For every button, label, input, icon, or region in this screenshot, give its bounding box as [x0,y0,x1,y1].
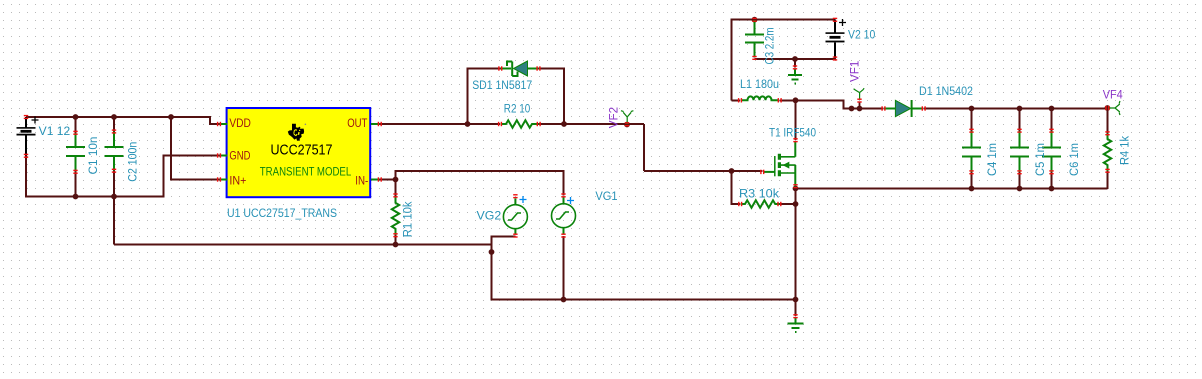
svg-text:R3 10k: R3 10k [739,189,779,201]
node C6 top [1049,106,1055,112]
pin U1 GND [217,153,221,157]
pin C6 bottom [1049,170,1053,174]
node C2 bottom [111,194,117,200]
wire SD1 left vertical [468,69,501,126]
battery V1 [17,117,39,156]
pin V2 top [833,18,837,22]
wire R1 top stub [395,180,397,197]
capacitor C3 [745,20,764,58]
node VG1 bottom [561,297,567,303]
node R2 left [465,121,471,127]
wire lower horizontal net y=244 [114,244,492,246]
pin R4 bottom [1105,169,1109,173]
wire C3 loop bottom [755,58,836,60]
svg-text:OUT: OUT [347,118,367,130]
wire drain node to D1 step [796,101,884,109]
wire C5 top stub [1019,109,1021,132]
pin D1 cathode [922,106,926,110]
node C1 bottom [73,194,79,200]
svg-text:VG1: VG1 [595,191,617,203]
svg-text:R2 10: R2 10 [504,104,530,116]
pin U1 IN+ [217,177,221,181]
wire L1 left stub [732,100,741,102]
generator VG1 [552,197,576,234]
pin C5 top [1017,129,1021,133]
wire bottom ground rail [492,299,797,301]
diode SD1 1N5817 (pointing left, schottky) [501,61,539,76]
test point VF1 [859,102,861,109]
pin VG2 minus [513,234,517,238]
pin U1 VDD [217,122,221,126]
pin R2 right [537,122,541,126]
wire R2 right stub [539,123,564,125]
wire R1 bottom stub [395,235,397,246]
svg-text:VDD: VDD [229,118,251,130]
svg-text:C3 2.2m: C3 2.2m [765,28,777,65]
svg-text:C4 1m: C4 1m [987,143,999,176]
svg-text:SD1 1N5817: SD1 1N5817 [472,80,532,92]
wire C2 bottom stub [113,171,115,198]
svg-text:VF4: VF4 [1103,90,1124,102]
pin C6 top [1049,129,1053,133]
pin VG2 plus [513,194,517,198]
svg-text:R1 10k: R1 10k [403,201,415,237]
svg-text:D1 1N5402: D1 1N5402 [919,86,973,98]
op-amp U1 UCC27517 macro box [220,108,380,197]
pin SD1 anode [498,66,502,70]
capacitor C6 [1042,131,1061,172]
capacitor C1 [66,133,85,172]
wire VF2 drop [643,124,645,171]
pin ground bottom [793,314,797,318]
wire R2 node to VF2 corner [564,123,644,125]
svg-text:R4 1k: R4 1k [1120,136,1132,165]
wire IN- pin to R1 node [380,179,396,181]
wire ground stub top [794,59,796,68]
wire gate horizontal [644,170,763,172]
wire VG1 bottom drop [563,236,565,300]
PIN END MARKS [24,18,1110,319]
pin VG1 minus [561,234,565,238]
TI logo [288,124,306,141]
wire GND pin drop [164,156,220,198]
node C3/V2 ground [792,56,798,62]
pin T1 source [793,184,797,188]
pin C5 bottom [1017,170,1021,174]
pin V1 top [24,115,28,119]
svg-text:TRANSIENT MODEL: TRANSIENT MODEL [260,165,352,179]
resistor R1 (vertical) [392,196,399,235]
pin ground top [793,65,797,69]
node mid vertical x=491 [489,249,495,255]
pin C3 bottom [752,56,756,60]
test point VF2 [621,111,633,124]
pin R1 bottom [393,233,397,237]
diode D1 1N5402 (pointing right) [884,100,923,117]
node R3 right [793,201,799,207]
resistor R3 (horizontal) [741,200,780,207]
node C3 top [752,17,758,23]
wire C5 bottom stub [1019,172,1021,189]
wire R4 bottom stub [1107,171,1109,189]
svg-text:UCC27517: UCC27517 [271,142,333,159]
pin R3 right [777,202,781,206]
pin D1 anode [881,106,885,110]
node C5 top [1017,106,1023,112]
resistor R2 [501,120,539,127]
pin V2 bottom [833,56,837,60]
wire T1 drain stub [795,101,797,141]
svg-text:VF2: VF2 [609,107,621,128]
resistor R4 (vertical) [1104,134,1111,172]
pin C2 top [112,129,116,133]
svg-text:GND: GND [229,151,250,163]
wire ground stub bottom [795,300,797,317]
node T1 drain / L1 right [793,97,799,103]
capacitor C2 [105,132,124,171]
generator VG2 [503,196,527,235]
node IN- / R1 top [393,177,399,183]
wire C6 bottom stub [1051,172,1053,189]
test point VF4 (pointing right) [1108,101,1120,115]
svg-text:T1 IRF540: T1 IRF540 [769,128,816,140]
pin VF4 [1105,106,1109,110]
svg-text:C6 1m: C6 1m [1069,143,1081,176]
node C6 bottom [1049,186,1055,192]
wire battery V1 bottom [25,155,27,198]
svg-text:VG2: VG2 [477,211,502,223]
wire top rail VDD net [26,116,210,118]
node C5 bottom [1017,186,1023,192]
wire C4 top stub [971,109,973,132]
transistor T1 IRF540 (NMOS) [763,142,795,187]
wire T1 source down to ground rail [795,189,797,301]
wire L1 right stub [780,100,796,102]
wire C1 top stub [75,116,77,133]
svg-text:C2 100n: C2 100n [128,142,140,182]
pin R4 top [1105,131,1109,135]
wire T1 source rail to output caps [796,188,1108,190]
wire bottom-left ground rail [25,196,164,198]
wire VDD step [210,116,220,124]
pin VG1 plus [561,193,565,197]
pin T1 gate [760,170,764,174]
node VF2 [624,122,630,128]
node VF4 / R4 top [1105,105,1111,111]
pin V1 bottom [24,154,28,158]
node C4 bottom [969,186,975,192]
wire SD1 right vertical [539,69,565,126]
wire R1 node up corner to VG1 top [396,171,564,196]
node C2 top [111,114,117,120]
wire C3 loop left vertical [732,20,836,101]
node R1 bottom [393,242,399,248]
node R2 right / VG1 top branch [561,121,567,127]
svg-text:IN-: IN- [355,175,368,187]
svg-text:U1 UCC27517_TRANS: U1 UCC27517_TRANS [227,208,337,220]
pin T1 drain [793,138,797,142]
svg-text:L1 180u: L1 180u [740,79,779,91]
node IN+ branch [168,114,174,120]
pin VF2 [625,122,629,126]
node step corner before VF1 [849,106,855,112]
pin C1 bottom [73,170,77,174]
pin L1 left [738,98,742,102]
pin C2 bottom [112,169,116,173]
svg-text:VF1: VF1 [850,61,862,82]
wire VG2 bottom corner vertical [492,237,516,301]
inductor L1 180u [741,96,780,100]
node C1 top [73,114,79,120]
ground (bottom, T1 source net) [788,318,804,332]
pin SD1 cathode [536,66,540,70]
pin L1 right [778,98,782,102]
svg-text:V2 10: V2 10 [848,30,875,42]
ground (C3/V2 loop) [788,70,802,84]
capacitor C4 [962,131,981,172]
pin C4 bottom [969,170,973,174]
pin R2 left [498,122,502,126]
node ground bottom [793,297,799,303]
svg-text:C5 1m: C5 1m [1035,143,1047,176]
node T1 source [793,186,799,192]
wire R3 gate-side drop [732,171,741,204]
pin R3 left [738,202,742,206]
wire IN+ drop [171,116,220,180]
wire R4 top stub [1107,109,1109,134]
node C4 top [969,106,975,112]
node gate / R3 left [729,168,735,174]
wire OUT pin to R2 node [380,123,468,125]
wire R3 right stub [780,203,796,205]
wire C4 bottom stub [971,172,973,189]
pin C3 top [752,18,756,22]
pin C4 top [969,129,973,133]
pin R1 top [393,193,397,197]
pin VF1 [857,99,861,103]
node VF1 [857,106,863,112]
svg-text:C1 10n: C1 10n [88,137,100,175]
battery V2 [826,19,847,58]
capacitor C5 [1010,131,1029,172]
svg-text:IN+: IN+ [229,175,246,187]
pin C1 top [73,131,77,135]
wire C1 bottom stub [75,172,77,198]
wire R2 left stub [468,123,501,125]
pin U1 OUT [378,122,382,126]
pin U1 IN- [378,177,382,181]
wire D1 cathode to output node [924,108,1108,110]
wire C6 top stub [1051,109,1053,132]
svg-text:V1 12: V1 12 [39,126,70,138]
wire C2 top stub [113,116,115,132]
wire ground drop to lower net [113,197,115,245]
